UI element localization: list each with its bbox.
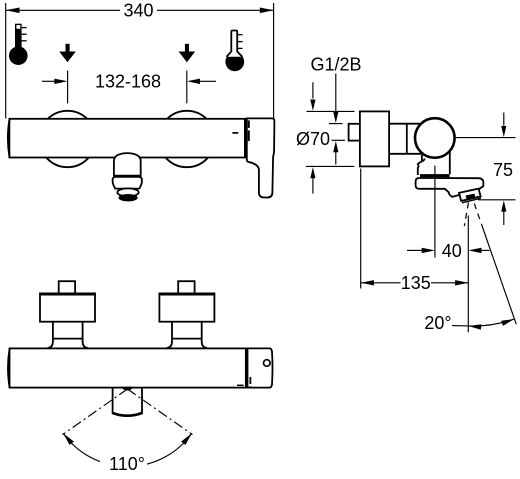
spout aerator rim (front) <box>117 188 138 196</box>
spout middle section (front) <box>113 177 142 189</box>
dimension 132-168 extension line left <box>67 71 69 104</box>
dia 70 arrow top <box>312 82 314 98</box>
G1/2B leader line <box>335 74 337 113</box>
housing below valve <box>418 155 422 175</box>
dimension 340 line right segment <box>157 9 274 11</box>
20 deg arc <box>468 319 514 326</box>
lever handle (front) <box>247 118 275 197</box>
dia 70 arrow bottom <box>310 167 315 178</box>
dimension 75 top line (valve axis) <box>456 137 516 139</box>
inlet union block left <box>40 293 95 321</box>
spout aerator outlet (front, black) <box>119 194 138 201</box>
cold thermometer icon <box>225 31 244 72</box>
dimension 75 arrow down <box>503 113 505 126</box>
20 deg arc arrow right <box>501 319 514 326</box>
svg-text:110°: 110° <box>109 454 145 474</box>
inlet union small square left <box>59 281 75 293</box>
dimension 132-168 extension line right <box>186 71 188 104</box>
swivel dash-dot line left <box>63 389 128 435</box>
thread top extension line <box>329 123 343 125</box>
110 deg arc <box>63 433 192 466</box>
wall escutcheon circle left <box>39 111 95 167</box>
svg-text:135: 135 <box>401 273 431 293</box>
union nut neck right <box>171 322 173 342</box>
end cap centre dash <box>249 377 251 384</box>
wall flange (dia 70) <box>360 111 389 166</box>
wall escutcheon circle right <box>159 111 215 167</box>
thread bottom extension line <box>332 139 346 141</box>
water spray dashed right / 20 deg line dashed head <box>474 204 481 224</box>
aerator vertical extension line <box>467 216 469 333</box>
aerator outlet rim <box>462 198 481 203</box>
G1/2B arrow to thread bottom <box>333 141 338 152</box>
swivel dash-dot line right <box>128 389 193 435</box>
dimension 132-168 arrow left <box>42 80 56 82</box>
dimension 132-168 arrow right <box>199 80 216 82</box>
aerator housing (side, tilted) <box>459 189 481 201</box>
dimension 40 line left + arrow <box>407 249 423 251</box>
dimension 340 line left segment <box>6 9 120 11</box>
20 deg leader <box>452 325 468 327</box>
svg-text:20°: 20° <box>424 313 451 333</box>
spout neck dome (front) <box>114 153 141 176</box>
housing joint thick band <box>420 174 450 177</box>
svg-text:40: 40 <box>442 241 462 261</box>
flange top extension line <box>307 110 355 112</box>
dimension 340 extension line right <box>273 3 275 119</box>
spout (side) <box>416 178 484 197</box>
mixer body (front) <box>9 119 245 158</box>
20 deg arc arrow left <box>468 324 481 329</box>
dimension 75 arrow up <box>501 200 506 211</box>
dimension 340 arrow left <box>6 8 20 14</box>
valve body circle (side) <box>415 118 455 158</box>
wall thread stub G1/2B <box>349 124 360 141</box>
dimension 40 line right + arrow <box>481 249 490 251</box>
dimension 340 arrow right <box>260 8 274 14</box>
dimension 135 line + arrows <box>361 282 401 284</box>
dimension 75 bottom line (outlet) <box>478 199 516 201</box>
inlet union block right <box>159 293 214 321</box>
hot thermometer icon <box>9 24 28 65</box>
flange bottom extension line <box>306 165 355 167</box>
aerator insert black band <box>466 194 476 200</box>
20 deg slant line <box>481 224 516 324</box>
mounting arrow left (down arrow) <box>59 44 76 62</box>
water spray dashed left <box>464 203 468 227</box>
end cap (top view) <box>248 348 273 387</box>
mixer body left end cap arc <box>8 120 10 158</box>
dimension 340 extension line left <box>5 3 7 119</box>
body centre mark dash <box>232 132 238 134</box>
valve axis extension line <box>434 166 436 258</box>
dimension 135 extension line left <box>360 169 362 289</box>
union nut neck left <box>52 322 54 342</box>
body left end cap arc (top view) <box>8 349 10 387</box>
svg-text:340: 340 <box>123 1 153 21</box>
110 deg arc arrow left <box>63 433 74 445</box>
handle centre mark dashes <box>248 120 250 128</box>
svg-text:G1/2B: G1/2B <box>310 54 361 74</box>
110 deg text background <box>100 452 147 471</box>
mixer body (top view) <box>10 348 247 387</box>
inlet union small square right <box>178 281 194 293</box>
body end bold line (top view) <box>245 348 248 387</box>
screw hole <box>264 360 271 367</box>
svg-text:75: 75 <box>493 160 513 180</box>
body tube (side) <box>389 123 421 125</box>
spout (top view) <box>112 388 114 414</box>
spout pivot dome (top view) <box>122 387 133 390</box>
mounting arrow right (down arrow) <box>179 44 196 62</box>
body end bold line <box>244 119 247 158</box>
body groove step near end (top view) <box>237 384 244 386</box>
110 deg arc arrow right <box>181 433 192 445</box>
G1/2B arrow to thread top <box>333 112 338 123</box>
svg-text:Ø70: Ø70 <box>296 129 330 149</box>
svg-text:132-168: 132-168 <box>95 71 161 91</box>
